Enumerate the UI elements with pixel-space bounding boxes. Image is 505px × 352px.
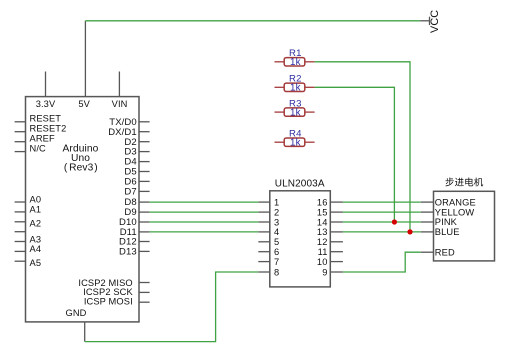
wire R2 to PINK node	[315, 87, 395, 222]
motor pin BLUE stub	[421, 231, 434, 233]
svg-text:ULN2003A: ULN2003A	[275, 178, 325, 189]
wire D10-3	[150, 221, 259, 223]
svg-text:A4: A4	[30, 244, 42, 254]
pin D8 stub	[139, 201, 150, 203]
svg-text:ICSP MOSI: ICSP MOSI	[84, 296, 133, 306]
pin ICSP MOSI stub	[139, 301, 150, 303]
svg-text:11: 11	[318, 247, 328, 257]
power symbol VCC	[420, 17, 429, 25]
wire ULN to YELLOW	[343, 211, 421, 213]
pin AREF stub	[15, 141, 26, 143]
svg-text:GND: GND	[66, 308, 87, 318]
svg-text:16: 16	[317, 197, 328, 207]
svg-text:1k: 1k	[290, 83, 301, 94]
junction node PINK	[392, 219, 397, 224]
pin D11 stub	[139, 231, 150, 233]
svg-text:D13: D13	[119, 247, 137, 258]
wire 5V to VCC (horizontal)	[85, 20, 420, 22]
svg-text:12: 12	[317, 237, 328, 247]
ULN pin 11 stub	[330, 251, 343, 253]
pin 5V stub / 5V riser	[84, 21, 86, 97]
wire GND to ULN pin 8	[85, 272, 259, 342]
pin D12 stub	[139, 241, 150, 243]
wire D11-4	[150, 231, 259, 233]
svg-text:2: 2	[274, 207, 279, 217]
pin D3 stub	[139, 151, 150, 153]
svg-text:N/C: N/C	[30, 143, 47, 153]
motor pin RED stub	[421, 251, 434, 253]
svg-text:1k: 1k	[290, 57, 301, 68]
svg-text:7: 7	[274, 257, 279, 267]
wire ULN to PINK	[343, 221, 421, 223]
svg-text:5V: 5V	[78, 99, 90, 109]
pin D7 stub	[139, 190, 150, 192]
pin D2 stub	[139, 141, 150, 143]
pin ICSP2 SCK stub	[139, 291, 150, 293]
motor pin YELLOW stub	[421, 211, 434, 213]
ULN pin 12 stub	[330, 241, 343, 243]
svg-text:(Rev3): (Rev3)	[64, 162, 98, 173]
ULN pin 15 stub	[330, 211, 343, 213]
pin N/C stub	[15, 151, 26, 153]
svg-text:6: 6	[274, 247, 279, 257]
motor pin ORANGE stub	[421, 201, 434, 203]
pin A1 stub	[15, 211, 26, 213]
pin DX/D1 stub	[139, 131, 150, 133]
svg-text:A3: A3	[30, 234, 42, 244]
pin GND stub	[84, 322, 86, 342]
svg-text:VCC: VCC	[429, 10, 441, 33]
wire ULN pin 9 to RED	[343, 252, 421, 272]
IC U2 ULN2003A body	[270, 191, 331, 287]
svg-text:D7: D7	[124, 187, 136, 198]
svg-text:3.3V: 3.3V	[36, 99, 56, 109]
svg-text:1: 1	[274, 197, 279, 207]
pin unlabeled stub	[15, 231, 26, 233]
ULN pin 5 stub	[258, 241, 270, 243]
svg-text:3: 3	[274, 217, 279, 227]
ULN pin 4 stub	[258, 231, 270, 233]
ULN pin 2 stub	[258, 211, 270, 213]
svg-text:AREF: AREF	[30, 134, 55, 144]
pin A5 stub	[15, 260, 26, 262]
svg-text:15: 15	[317, 207, 328, 217]
svg-text:1k: 1k	[290, 137, 301, 148]
svg-text:A2: A2	[30, 218, 42, 228]
resistor R1	[275, 58, 315, 66]
ULN pin 7 stub	[258, 261, 270, 263]
svg-text:14: 14	[317, 217, 328, 227]
svg-text:A5: A5	[30, 258, 42, 268]
pin D10 stub	[139, 221, 150, 223]
svg-text:RED: RED	[435, 247, 455, 257]
pin D4 stub	[139, 161, 150, 163]
svg-text:5: 5	[274, 237, 279, 247]
svg-text:BLUE: BLUE	[435, 227, 460, 237]
wire ULN to BLUE	[343, 231, 421, 233]
ULN pin 13 stub	[330, 231, 343, 233]
svg-text:PINK: PINK	[435, 217, 458, 227]
wire D8-1	[150, 201, 259, 203]
pin D5 stub	[139, 171, 150, 173]
svg-text:ORANGE: ORANGE	[435, 197, 476, 207]
pin A4 stub	[15, 250, 26, 252]
svg-text:10: 10	[317, 257, 328, 267]
svg-text:RESET: RESET	[30, 114, 62, 124]
svg-text:A0: A0	[30, 195, 42, 205]
pin 3.3V stub	[45, 72, 47, 97]
svg-text:1k: 1k	[290, 107, 301, 118]
svg-text:4: 4	[274, 227, 279, 237]
stepper motor body	[434, 191, 495, 261]
resistor R4	[275, 138, 315, 146]
ULN pin 9 stub	[330, 271, 343, 273]
ULN pin 16 stub	[330, 201, 343, 203]
pin A3 stub	[15, 241, 26, 243]
pin D13 stub	[139, 250, 150, 252]
pin D9 stub	[139, 211, 150, 213]
pin RESET2 stub	[15, 131, 26, 133]
ULN pin 10 stub	[330, 261, 343, 263]
svg-text:8: 8	[274, 267, 279, 277]
ULN pin 1 stub	[258, 201, 270, 203]
svg-text:A1: A1	[30, 204, 42, 214]
label stepper motor (Chinese)	[445, 178, 453, 187]
svg-text:13: 13	[317, 227, 328, 237]
pin A0 stub	[15, 201, 26, 203]
svg-text:RESET2: RESET2	[30, 124, 67, 134]
ULN pin 14 stub	[330, 221, 343, 223]
pin RESET stub	[15, 121, 26, 123]
ULN pin 8 stub	[258, 271, 270, 273]
pin VIN stub	[118, 72, 120, 97]
motor pin PINK stub	[421, 221, 434, 223]
pin ICSP2 MISO stub	[139, 282, 150, 284]
junction node BLUE	[407, 229, 412, 234]
wire D9-2	[150, 211, 259, 213]
ULN pin 3 stub	[258, 221, 270, 223]
pin A2 stub	[15, 221, 26, 223]
svg-text:9: 9	[322, 267, 327, 277]
resistor R2	[275, 83, 315, 91]
pin D6 stub	[139, 180, 150, 182]
wire R1 to BLUE node	[315, 62, 410, 232]
module U1 Arduino Uno (Rev3) body	[26, 97, 140, 322]
svg-text:VIN: VIN	[112, 99, 128, 109]
pin TX/D0 stub	[139, 121, 150, 123]
wire ULN to ORANGE	[343, 201, 421, 203]
ULN pin 6 stub	[258, 251, 270, 253]
resistor R3	[275, 108, 315, 116]
svg-text:YELLOW: YELLOW	[435, 207, 475, 217]
